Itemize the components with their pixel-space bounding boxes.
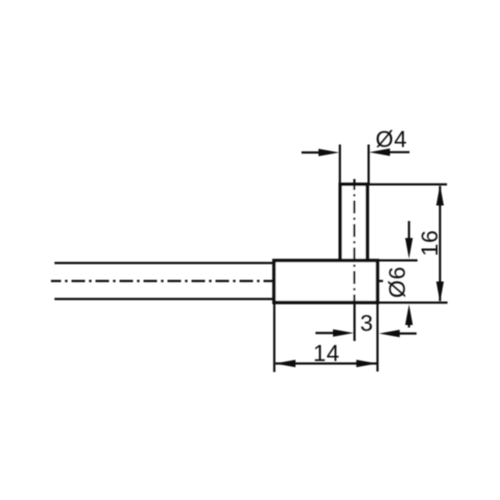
3 / 14 right extension line — [376, 304, 378, 372]
Ø6 lower arrow leader — [408, 325, 410, 328]
3 right arrow leader — [400, 332, 417, 334]
16 top extension line — [369, 183, 448, 185]
Ø6 upper arrow leader — [408, 221, 410, 239]
Ø4 right arrowhead — [369, 148, 390, 156]
Ø4 left arrowhead — [319, 149, 340, 157]
14 left extension line — [273, 304, 275, 372]
extension line right of Ø4 — [368, 145, 370, 184]
cable top outline — [55, 262, 275, 264]
Ø6 top extension line — [378, 259, 418, 261]
svg-text:3: 3 — [360, 310, 373, 336]
svg-text:Ø6: Ø6 — [384, 266, 410, 298]
14 left arrowhead (points left) — [275, 360, 296, 368]
sensor body (Ø6 x 14) — [274, 261, 378, 303]
horizontal centerline — [51, 280, 368, 282]
14 dimension line — [276, 362, 377, 364]
probe tube (vertical, Ø4) — [340, 184, 367, 260]
extension line left of Ø4 — [339, 145, 341, 184]
3 right arrowhead — [379, 330, 400, 338]
14 right arrowhead (points right) — [356, 360, 377, 368]
16 dimension line — [439, 186, 441, 301]
16 bottom arrowhead — [436, 282, 444, 303]
Ø4 right arrow leader — [390, 151, 410, 153]
svg-text:14: 14 — [313, 340, 340, 366]
centerline tick across body right edge — [372, 280, 384, 282]
3 left arrow leader — [316, 332, 335, 334]
cable bottom outline — [55, 298, 275, 300]
vertical centerline — [353, 179, 355, 303]
16 top arrowhead — [436, 185, 444, 206]
svg-text:16: 16 — [416, 230, 442, 257]
3 left extension line (centerline extension) — [353, 303, 355, 341]
Ø6 upper arrowhead (points down) — [405, 238, 413, 259]
Ø6 lower arrowhead (points up) — [405, 304, 413, 325]
3 left arrowhead — [333, 329, 354, 337]
svg-text:Ø4: Ø4 — [376, 126, 408, 152]
16 bottom extension line — [378, 302, 448, 304]
Ø4 left arrow leader — [302, 151, 321, 153]
